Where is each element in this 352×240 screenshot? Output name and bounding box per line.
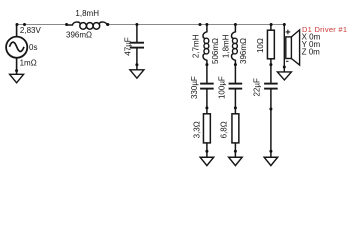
svg-text:330µF: 330µF — [190, 76, 199, 99]
svg-text:10Ω: 10Ω — [256, 38, 265, 53]
svg-text:506mΩ: 506mΩ — [211, 38, 220, 64]
svg-text:396mΩ: 396mΩ — [239, 38, 248, 64]
svg-text:396mΩ: 396mΩ — [66, 30, 92, 39]
svg-text:100µF: 100µF — [217, 76, 226, 99]
svg-text:2,7mH: 2,7mH — [191, 34, 200, 58]
svg-text:3,3Ω: 3,3Ω — [192, 121, 201, 138]
svg-text:6,8Ω: 6,8Ω — [219, 121, 228, 138]
svg-text:2,83V: 2,83V — [20, 26, 42, 35]
svg-text:1,8mH: 1,8mH — [222, 34, 231, 58]
svg-text:Z 0m: Z 0m — [302, 47, 321, 56]
svg-text:1,8mH: 1,8mH — [75, 9, 99, 18]
svg-text:47µF: 47µF — [123, 37, 132, 56]
svg-text:1mΩ: 1mΩ — [20, 59, 37, 68]
svg-text:22µF: 22µF — [253, 78, 262, 97]
svg-text:0s: 0s — [29, 43, 37, 52]
